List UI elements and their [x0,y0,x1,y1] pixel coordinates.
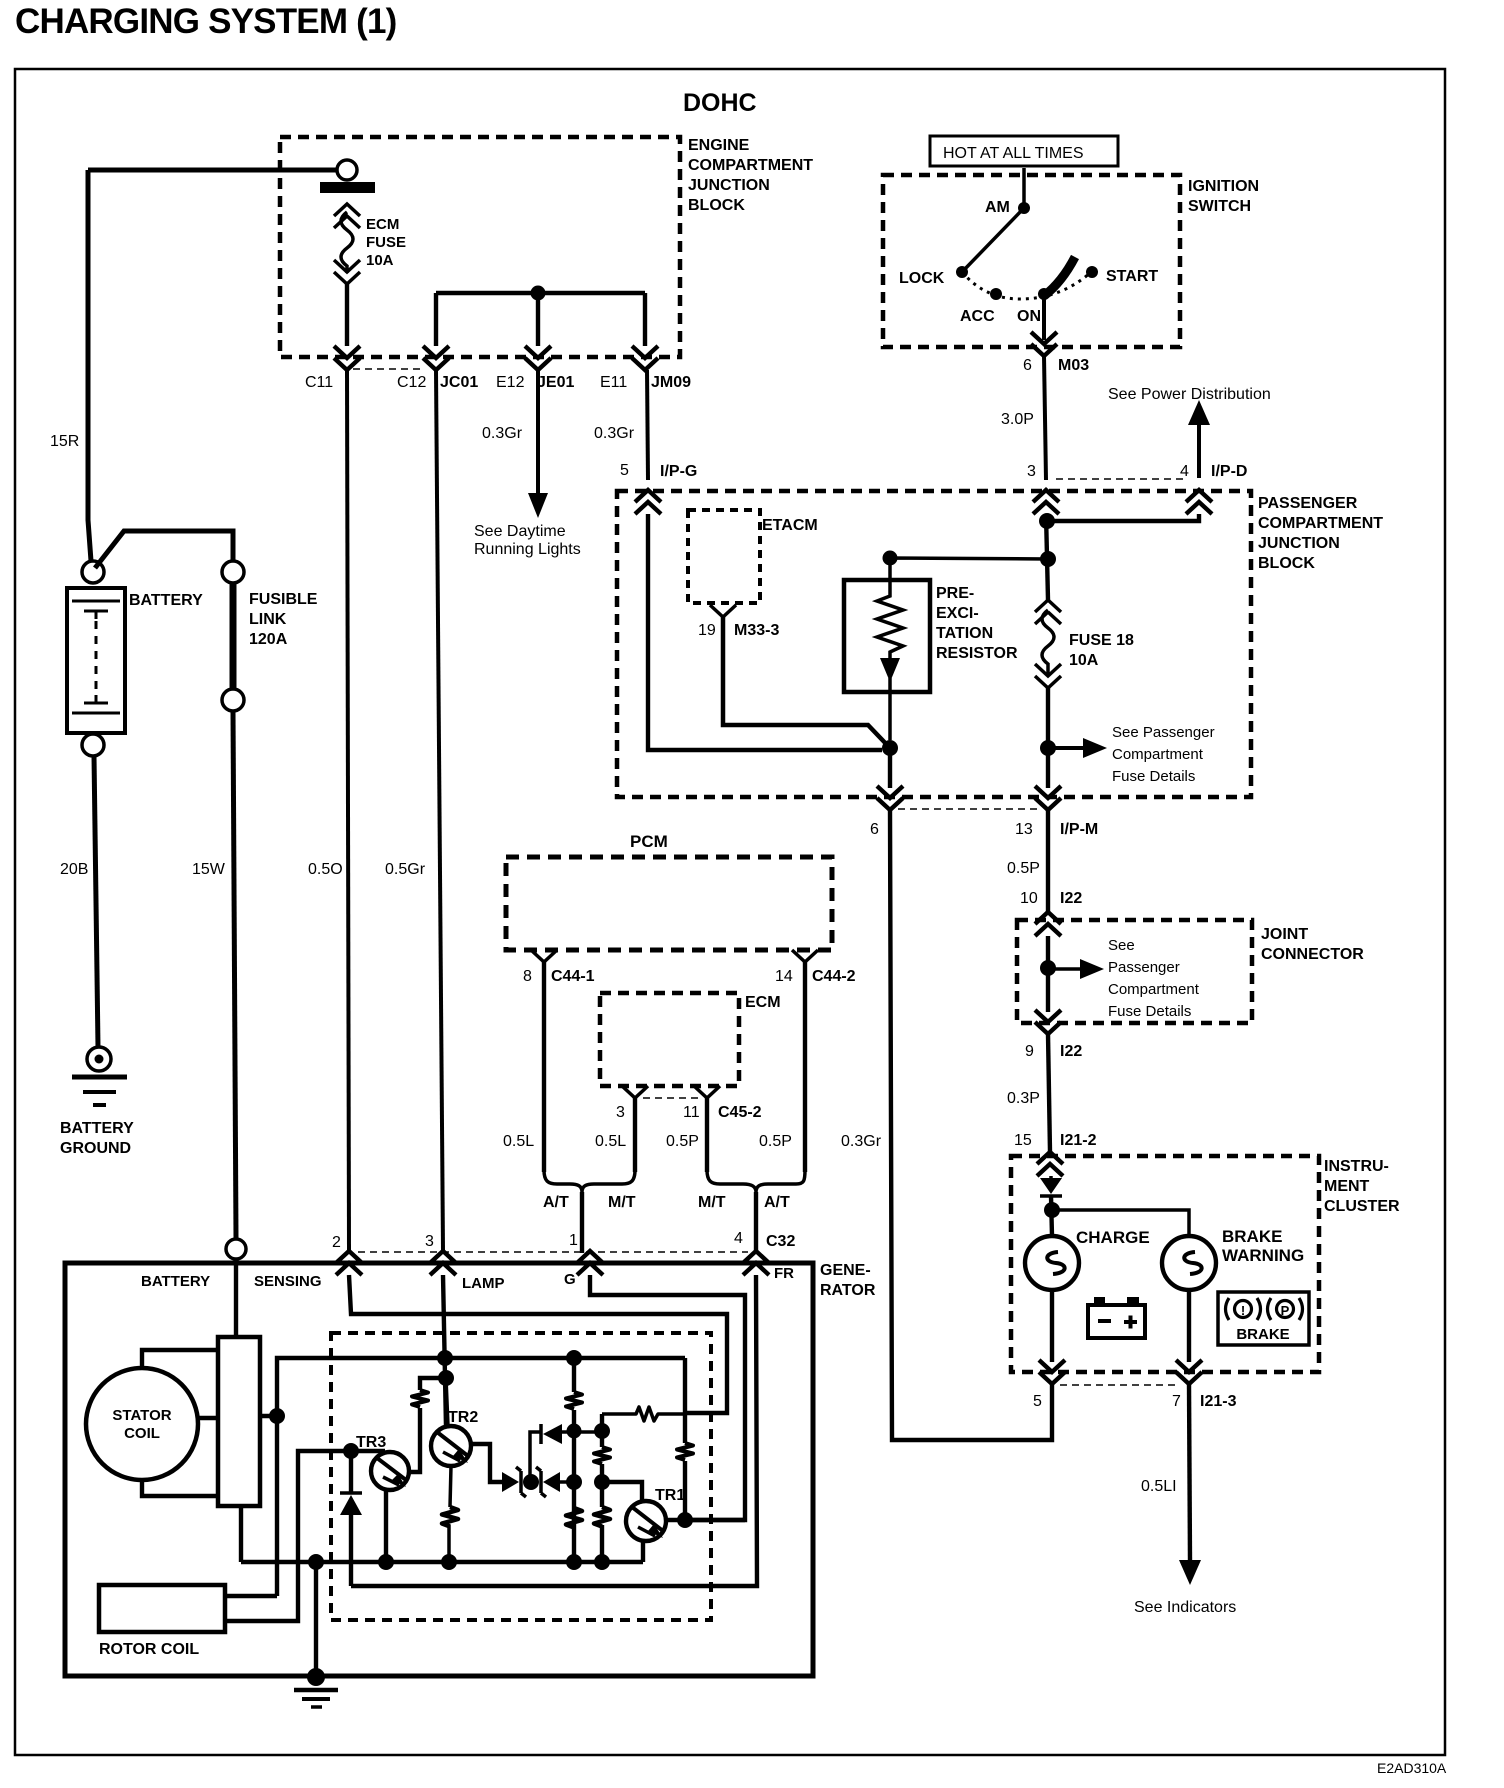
svg-text:MENT: MENT [1324,1178,1370,1195]
ground rail [241,1506,643,1562]
svg-text:3: 3 [1027,463,1036,480]
sense divider line V3 [600,1414,604,1562]
connector chevron 5 I/P-G [635,490,661,514]
wire E11/JM09 to I/P-G [647,370,648,480]
fusible link top circle [222,561,244,583]
junction dot fuse details branch [1040,740,1056,756]
connector chevron 3 [1033,490,1059,514]
TR2 emitter to zener pair [470,1444,502,1482]
svg-text:I21-3: I21-3 [1200,1393,1237,1410]
ECM fuse symbol [334,204,360,228]
wire diode to charge lamp [1051,1196,1052,1236]
connector chevron 1 G [577,1251,603,1275]
svg-text:BATTERY: BATTERY [141,1273,210,1290]
svg-text:JUNCTION: JUNCTION [1258,535,1340,552]
svg-text:JOINT: JOINT [1261,926,1308,943]
svg-text:I/P-G: I/P-G [660,463,697,480]
stator coil circle [86,1368,198,1480]
rotor coil top stub [225,1594,277,1598]
diode (G circuit to TR3 base) [349,1451,353,1586]
CHARGE lamp circle [1025,1236,1079,1290]
svg-text:CLUSTER: CLUSTER [1324,1198,1400,1215]
diode D1 feedback [530,1432,603,1482]
svg-text:M/T: M/T [698,1194,726,1211]
transistor TR2 [431,1426,471,1466]
svg-text:I/P-D: I/P-D [1211,463,1247,480]
generator ground symbol [294,1688,338,1693]
battery icon plus [1124,1316,1137,1329]
junction dot TR3 base branch [343,1443,359,1459]
svg-text:ROTOR COIL: ROTOR COIL [99,1641,199,1658]
wire 0.5L from C44-1 [542,962,546,1172]
wire B+ rail riser [277,1358,685,1596]
battery icon minus [1098,1319,1111,1323]
svg-text:A/T: A/T [764,1194,790,1211]
terminal circle at ECM fuse [337,160,357,180]
svg-text:ACC: ACC [960,308,995,325]
svg-text:3: 3 [616,1104,625,1121]
wire I/P-D to junction [1048,514,1199,521]
svg-text:ON: ON [1017,308,1041,325]
arrow to see daytime running lights [528,493,548,518]
diode in cluster [1049,1176,1053,1202]
HOT AT ALL TIMES box [930,136,1118,166]
merge brace M/T A/T (FR side) [707,1170,805,1192]
SEC_IGN [617,479,1251,810]
svg-text:STATOR: STATOR [112,1407,171,1424]
svg-text:FUSIBLE: FUSIBLE [249,591,318,608]
resistor on V2 upper [566,1392,582,1409]
svg-text:2: 2 [332,1234,341,1251]
connector chevron 4 FR [743,1251,769,1275]
junction dot lamp x wire A [437,1350,453,1366]
svg-text:See Daytime: See Daytime [474,523,566,540]
svg-text:JC01: JC01 [440,374,478,391]
thin dashed row line at PCJB bottom [898,808,1040,810]
thin dashed connector row line [353,368,424,370]
junction dot in joint connector [1040,960,1056,976]
svg-text:ETACM: ETACM [762,517,818,534]
wire M33-3 to resistor bottom junction [723,617,890,748]
junction dot V2 top [566,1350,582,1366]
svg-text:ECM: ECM [366,216,399,233]
svg-text:FUSE 18: FUSE 18 [1069,632,1134,649]
horizontal resistor on wire A branch [602,1407,685,1421]
svg-text:C45-2: C45-2 [718,1104,762,1121]
junction dot I/P-D branch [1039,513,1055,529]
connector chevron 2 SENSING [336,1251,362,1275]
connector chevron C11 [334,346,360,370]
junction dot V3 x D1 line [594,1423,610,1439]
svg-text:GENE-: GENE- [820,1262,871,1279]
svg-text:9: 9 [1025,1043,1034,1060]
resistor on FR drop [677,1443,693,1460]
wire fuse to chevron 13 [1046,688,1050,788]
svg-text:Compartment: Compartment [1112,746,1204,763]
svg-text:JM09: JM09 [651,374,691,391]
connector chevron 7 I21-3 [1176,1360,1202,1384]
zener diode (right) [536,1467,546,1497]
wire 0.5Gr C12 to generator lamp [436,370,443,1250]
svg-text:0.5P: 0.5P [1007,860,1040,877]
TR3 emitter to rail [384,1490,388,1562]
connector chevron 3 LAMP [430,1251,456,1275]
battery negative terminal circle [82,734,104,756]
TR2 emitter resistor to rail [449,1466,451,1562]
svg-text:LOCK: LOCK [899,270,945,287]
fusible link bottom circle [222,689,244,711]
svg-text:C44-2: C44-2 [812,968,856,985]
svg-text:JE01: JE01 [537,374,574,391]
battery plates top [72,600,120,603]
svg-text:CONNECTOR: CONNECTOR [1261,946,1364,963]
wire to pre-excitation resistor top [890,558,1048,580]
wire fuse to C11 [345,284,349,346]
wire brace to generator G terminal [580,1192,584,1253]
wire fusible link into rectifier [234,1259,238,1337]
svg-text:M33-3: M33-3 [734,622,779,639]
wire 3.0P M03 down to PCJB [1044,356,1046,480]
ignition switch dashed box [883,175,1180,347]
svg-text:CHARGING SYSTEM (1): CHARGING SYSTEM (1) [15,2,397,41]
generator battery terminal circle [226,1239,246,1259]
thin dashed connector row line at PCJB top [1056,478,1188,480]
wire E12/JE01 to daytime running lights [536,370,540,495]
junction dot charge/brake branch [1044,1202,1060,1218]
junction dot at resistor top [883,551,898,566]
joint connector dashed box [1017,920,1252,1023]
pre-excitation resistor box [844,580,930,692]
thin dashed C32 row line [358,1251,748,1253]
svg-text:BATTERY: BATTERY [60,1120,134,1137]
svg-text:TR1: TR1 [655,1487,685,1504]
ETACM output chevron 19 M33-3 [710,605,736,617]
svg-text:SWITCH: SWITCH [1188,198,1251,215]
svg-text:LAMP: LAMP [462,1275,505,1292]
svg-text:COIL: COIL [124,1425,160,1442]
battery icon terminals [1094,1297,1105,1305]
svg-text:DOHC: DOHC [683,89,757,117]
svg-text:EXCI-: EXCI- [936,605,979,622]
wire LAMP internal [443,1275,446,1427]
brake lamp filament [1184,1252,1201,1274]
BRAKE WARNING lamp circle [1162,1236,1216,1290]
svg-text:10A: 10A [366,252,394,269]
wire I/P-G down and across to junction [648,514,882,750]
battery ground symbol [87,1047,111,1071]
resistor on V2 lower [566,1508,582,1528]
merge brace A/T M/T (lamp side) [544,1170,635,1192]
svg-text:Running Lights: Running Lights [474,541,581,558]
wire SENSING internal [349,1275,727,1413]
arrow see passenger compartment fuse details [1048,746,1085,750]
svg-text:8: 8 [523,968,532,985]
svg-text:15W: 15W [192,861,226,878]
svg-text:BLOCK: BLOCK [688,197,745,214]
svg-text:M/T: M/T [608,1194,636,1211]
junction dot TR1 x FR drop [677,1512,693,1528]
ECJB internal bus wire [436,293,645,346]
battery box [67,588,125,733]
brake icon symbols ((I))((P)) [1226,1298,1303,1320]
wire battery to fusible link branch [95,531,233,568]
resistor on V3 upper [594,1447,610,1464]
svg-text:6: 6 [1023,357,1032,374]
wire 20B battery to ground [94,756,98,1047]
ECM chevron 11 C45-2 [694,1086,720,1098]
svg-text:5: 5 [620,462,629,479]
rotor coil box [99,1585,225,1632]
svg-text:0.5P: 0.5P [666,1133,699,1150]
svg-text:TR2: TR2 [448,1409,478,1426]
svg-text:C44-1: C44-1 [551,968,595,985]
svg-text:COMPARTMENT: COMPARTMENT [688,157,813,174]
svg-text:0.5L: 0.5L [595,1133,626,1150]
svg-text:4: 4 [734,1230,743,1247]
branch to TR3 with noise resistor [409,1378,446,1472]
svg-text:Fuse Details: Fuse Details [1112,768,1195,785]
svg-text:3: 3 [425,1233,434,1250]
svg-text:FUSE: FUSE [366,234,406,251]
svg-text:14: 14 [775,968,793,985]
svg-text:15: 15 [1014,1132,1032,1149]
wire 0.5O C11 to generator sensing [347,370,349,1250]
junction dot between zeners [523,1474,539,1490]
thin dashed row line under ECM [643,1097,698,1099]
svg-text:START: START [1106,268,1158,285]
PCM chevron 8 C44-1 [531,950,557,962]
svg-text:0.3Gr: 0.3Gr [482,425,523,442]
ignition switch contact dots [1018,202,1030,214]
svg-text:FR: FR [774,1265,794,1282]
svg-text:C12: C12 [397,374,426,391]
resistor on V3 lower [594,1507,610,1527]
svg-text:PRE-: PRE- [936,585,974,602]
battery center dashed electrolyte line [95,621,98,691]
svg-text:I22: I22 [1060,1043,1082,1060]
svg-text:PASSENGER: PASSENGER [1258,495,1358,512]
svg-text:GROUND: GROUND [60,1140,131,1157]
svg-text:4: 4 [1180,463,1189,480]
svg-text:RESISTOR: RESISTOR [936,645,1018,662]
zener diode (left) [502,1472,519,1492]
svg-text:PCM: PCM [630,832,668,851]
stator to rectifier wires [142,1350,218,1496]
svg-text:0.3P: 0.3P [1007,1090,1040,1107]
connector chevron 10 I22 [1035,912,1061,936]
svg-text:See Indicators: See Indicators [1134,1599,1236,1616]
connector chevron E12/JE01 [525,346,551,370]
svg-text:Fuse Details: Fuse Details [1108,1003,1191,1020]
svg-text:BRAKE: BRAKE [1222,1227,1282,1246]
svg-text:13: 13 [1015,821,1033,838]
svg-text:HOT AT ALL TIMES: HOT AT ALL TIMES [943,145,1084,162]
rail junction dots [308,1554,324,1570]
svg-text:E11: E11 [600,374,627,391]
generator ground junction dot [307,1668,325,1686]
svg-text:0.5L: 0.5L [503,1133,534,1150]
svg-text:See: See [1108,937,1135,954]
resistor (TR3 feed) [412,1390,428,1407]
TR2 collector stub [446,1378,448,1426]
svg-text:19: 19 [698,622,716,639]
svg-text:E2AD310A: E2AD310A [1377,1760,1447,1776]
connector chevron 13 I/P-M [1035,786,1061,810]
svg-text:ECM: ECM [745,994,781,1011]
SEC_PCJB [506,857,832,1253]
svg-text:LINK: LINK [249,611,287,628]
junction dot TR3 branch [438,1370,454,1386]
resistor arrow tip [880,658,900,682]
dotted travel arc LOCK-ACC-ON-START [962,272,1090,299]
svg-text:6: 6 [870,821,879,838]
connector chevron C12/JC01 [423,346,449,370]
connector chevron 15 I21-2 [1037,1152,1063,1176]
svg-text:120A: 120A [249,631,288,648]
svg-text:COMPARTMENT: COMPARTMENT [1258,515,1383,532]
wire ON to M03 [1042,294,1046,340]
svg-text:BRAKE: BRAKE [1236,1326,1289,1343]
svg-text:0.5LI: 0.5LI [1141,1478,1177,1495]
SEC_ECJB [67,170,648,1259]
svg-text:SENSING: SENSING [254,1273,322,1290]
svg-text:P: P [1281,1303,1290,1318]
svg-text:CHARGE: CHARGE [1076,1228,1150,1247]
svg-text:3.0P: 3.0P [1001,411,1034,428]
wire G internal [590,1275,745,1520]
wire 0.5P I/P-M down to I22 [1046,810,1050,912]
svg-text:0.5P: 0.5P [759,1133,792,1150]
TR1 collector to G wire [665,1518,745,1522]
connector chevron 5 (cluster bottom) [1039,1360,1065,1384]
battery positive terminal circle [82,561,104,583]
voltage regulator dashed box [331,1333,711,1620]
battery icon body [1088,1305,1145,1338]
svg-text:I/P-M: I/P-M [1060,821,1098,838]
connector chevron 6 M03 [1031,332,1057,356]
svg-text:0.3Gr: 0.3Gr [841,1133,882,1150]
instrument cluster dashed box [1011,1156,1319,1372]
wire 0.5P from C44-2 14 [803,962,807,1172]
PCM chevron 14 C44-2 [792,950,818,962]
wire from battery 15R feed to ECM fuse terminal [88,168,337,173]
fusible link element [230,583,237,689]
svg-text:BATTERY: BATTERY [129,592,203,609]
brake indicator icon box [1218,1292,1309,1345]
resistor zigzag element [877,582,903,658]
svg-text:TATION: TATION [936,625,993,642]
junction dot resistor branch [1040,551,1056,567]
switch blade AM to LOCK [962,208,1024,272]
battery plates bottom [84,695,108,703]
svg-text:M03: M03 [1058,357,1089,374]
wire junction down to chevron 6 [888,748,892,788]
svg-text:1: 1 [569,1232,578,1249]
ETACM dashed box [688,510,760,603]
junction dot V3 x TR1 base [594,1474,610,1490]
main vertical wire in PCJB [1046,514,1048,600]
wire to brake warning lamp [1052,1210,1189,1236]
charge lamp filament [1047,1252,1064,1274]
junction dot rectifier output [269,1408,285,1424]
fuse holder bar [320,182,375,193]
TR1 emitter to rail end [641,1541,645,1562]
svg-text:RATOR: RATOR [820,1282,876,1299]
arrow see indicators [1179,1560,1201,1585]
connector chevron 4 I/P-D [1186,490,1212,514]
wire 0.5P from C45-2 11 [705,1098,709,1172]
wire AM feed [1022,168,1026,208]
svg-text:See Power Distribution: See Power Distribution [1108,386,1271,403]
svg-text:0.5O: 0.5O [308,861,343,878]
svg-text:JUNCTION: JUNCTION [688,177,770,194]
svg-text:See Passenger: See Passenger [1112,724,1215,741]
wire A branch V2 [572,1358,576,1562]
svg-text:AM: AM [985,199,1010,216]
transistor TR1 [626,1501,666,1541]
wire 0.5L from ECM 3 [633,1098,637,1172]
wire 15W fusible link to generator [233,711,236,1238]
svg-text:A/T: A/T [543,1194,569,1211]
junction dot resistor bottom [882,740,898,756]
ECM dashed box [600,993,739,1086]
svg-text:20B: 20B [60,861,88,878]
svg-text:INSTRU-: INSTRU- [1324,1158,1389,1175]
connector chevron 9 I22 [1035,1010,1061,1034]
wire FR internal long run [351,1275,757,1586]
engine compartment junction block (dashed box) [280,137,680,357]
svg-text:I21-2: I21-2 [1060,1132,1097,1149]
TR1 base wire [602,1482,642,1503]
svg-text:0.5Gr: 0.5Gr [385,861,426,878]
passenger compartment junction block (dashed box) [617,491,1251,797]
junction dot V2 x D1 line [567,1424,582,1439]
svg-text:TR3: TR3 [356,1434,386,1451]
svg-text:I22: I22 [1060,890,1082,907]
junction dot V2 x zener line [566,1474,582,1490]
svg-text:G: G [564,1271,576,1288]
wire 0.3Gr from PCJB 6 down to instrument cluster 5 return [890,810,1052,1440]
svg-text:C32: C32 [766,1233,795,1250]
svg-text:ENGINE: ENGINE [688,137,750,154]
wire A drop with resistor chain [683,1358,687,1520]
FUSE 18 symbol [1035,600,1061,624]
SEC_LEFT [883,136,1210,480]
wire brace to generator FR terminal [754,1192,758,1250]
SEC_RIGHTCOL [65,1251,813,1707]
rotor coil bottom stub to TR3 base [225,1451,385,1621]
rectifier block [218,1337,260,1506]
switch actuator thick arc [1044,257,1075,296]
svg-text:C11: C11 [305,374,333,391]
see power distribution arrow [1197,420,1201,478]
junction dot on bus [531,286,546,301]
PCM dashed box [506,857,832,950]
rectifier output wire [260,1414,277,1418]
svg-text:7: 7 [1172,1393,1181,1410]
svg-text:IGNITION: IGNITION [1188,178,1259,195]
transistor TR3 [371,1452,409,1490]
svg-text:E12: E12 [496,374,525,391]
wire through joint connector [1046,936,1050,1012]
ground drop [314,1562,318,1677]
svg-text:WARNING: WARNING [1222,1246,1304,1265]
svg-text:BLOCK: BLOCK [1258,555,1315,572]
ECM chevron 3 [622,1086,648,1098]
svg-text:10A: 10A [1069,652,1099,669]
svg-text:Compartment: Compartment [1108,981,1200,998]
svg-text:5: 5 [1033,1393,1042,1410]
